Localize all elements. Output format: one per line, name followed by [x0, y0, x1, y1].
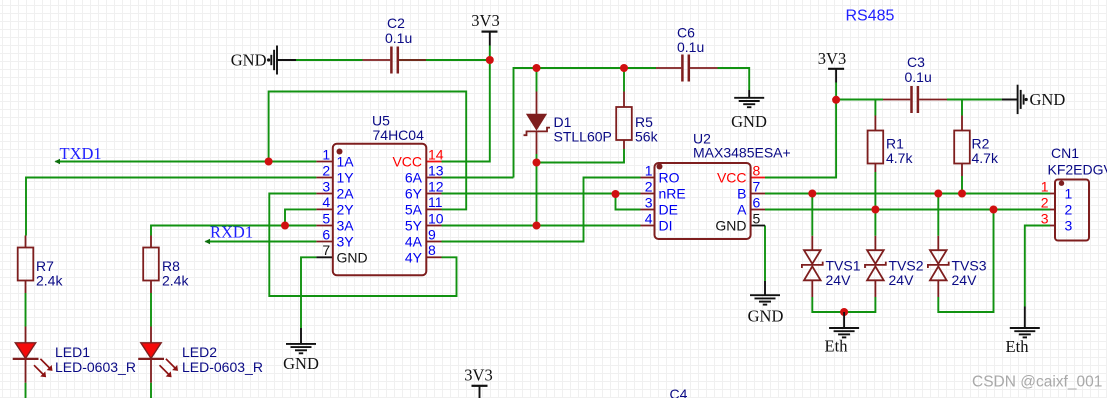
svg-text:RXD1: RXD1	[210, 223, 253, 242]
svg-text:RO: RO	[659, 170, 680, 186]
svg-text:24V: 24V	[826, 272, 852, 288]
svg-text:3V3: 3V3	[471, 11, 499, 30]
svg-text:24V: 24V	[952, 272, 978, 288]
svg-text:GND: GND	[283, 354, 319, 373]
svg-text:Eth: Eth	[1006, 337, 1030, 356]
svg-text:6: 6	[753, 194, 761, 210]
svg-text:9: 9	[428, 226, 436, 242]
svg-text:3: 3	[1041, 210, 1049, 226]
svg-text:3A: 3A	[337, 218, 355, 234]
svg-text:2: 2	[645, 178, 653, 194]
svg-text:LED-0603_R: LED-0603_R	[55, 359, 136, 375]
svg-text:13: 13	[428, 162, 444, 178]
svg-text:GND: GND	[748, 307, 784, 326]
svg-text:3Y: 3Y	[337, 234, 355, 250]
svg-text:5: 5	[753, 210, 761, 226]
svg-text:7: 7	[322, 242, 330, 258]
svg-text:3: 3	[645, 194, 653, 210]
svg-text:0.1u: 0.1u	[385, 30, 412, 46]
svg-text:3V3: 3V3	[464, 366, 492, 385]
svg-text:4Y: 4Y	[405, 249, 423, 265]
svg-text:GND: GND	[231, 51, 267, 70]
svg-text:GND: GND	[731, 112, 767, 131]
svg-text:2.4k: 2.4k	[36, 273, 63, 289]
svg-text:VCC: VCC	[392, 154, 422, 170]
svg-text:RS485: RS485	[846, 8, 895, 25]
svg-text:nRE: nRE	[659, 186, 686, 202]
svg-text:2: 2	[1065, 202, 1073, 218]
svg-text:6A: 6A	[405, 170, 423, 186]
svg-text:2Y: 2Y	[337, 201, 355, 217]
svg-text:DI: DI	[659, 218, 673, 234]
svg-text:DE: DE	[659, 202, 678, 218]
svg-text:10: 10	[428, 210, 444, 226]
svg-text:12: 12	[428, 178, 444, 194]
svg-text:1: 1	[1041, 178, 1049, 194]
svg-text:3: 3	[322, 178, 330, 194]
svg-text:A: A	[737, 202, 747, 218]
svg-text:8: 8	[753, 162, 761, 178]
svg-text:4.7k: 4.7k	[972, 150, 999, 166]
svg-text:3: 3	[1065, 218, 1073, 234]
svg-text:CN1: CN1	[1051, 145, 1079, 161]
svg-text:8: 8	[428, 242, 436, 258]
svg-text:GND: GND	[337, 249, 368, 265]
svg-text:1: 1	[322, 146, 330, 162]
svg-text:TXD1: TXD1	[60, 144, 102, 163]
svg-text:C2: C2	[387, 15, 405, 31]
svg-text:4.7k: 4.7k	[886, 150, 913, 166]
svg-text:2.4k: 2.4k	[162, 273, 189, 289]
svg-text:3V3: 3V3	[818, 49, 846, 68]
svg-text:4: 4	[645, 210, 653, 226]
svg-text:24V: 24V	[889, 272, 915, 288]
svg-text:5: 5	[322, 210, 330, 226]
svg-text:1A: 1A	[337, 154, 355, 170]
svg-text:VCC: VCC	[717, 170, 747, 186]
svg-text:74HC04: 74HC04	[373, 127, 425, 143]
svg-text:C3: C3	[907, 54, 925, 70]
svg-text:6Y: 6Y	[405, 186, 423, 202]
svg-text:KF2EDGV: KF2EDGV	[1048, 162, 1107, 178]
svg-text:1Y: 1Y	[337, 170, 355, 186]
svg-text:LED2: LED2	[182, 344, 217, 360]
svg-text:5A: 5A	[405, 201, 423, 217]
svg-text:B: B	[737, 186, 746, 202]
svg-text:C4: C4	[670, 386, 688, 398]
svg-text:4A: 4A	[405, 234, 423, 250]
svg-text:STLL60P: STLL60P	[554, 129, 612, 145]
svg-text:2: 2	[1041, 194, 1049, 210]
svg-text:5Y: 5Y	[405, 218, 423, 234]
svg-text:CSDN @caixf_001: CSDN @caixf_001	[972, 373, 1102, 390]
svg-text:LED1: LED1	[55, 344, 90, 360]
svg-text:0.1u: 0.1u	[677, 39, 704, 55]
svg-text:7: 7	[753, 178, 761, 194]
svg-text:1: 1	[1065, 186, 1073, 202]
svg-text:LED-0603_R: LED-0603_R	[182, 359, 263, 375]
svg-text:4: 4	[322, 194, 330, 210]
svg-text:2A: 2A	[337, 186, 355, 202]
svg-text:11: 11	[428, 194, 443, 210]
svg-text:1: 1	[645, 162, 653, 178]
svg-text:GND: GND	[1030, 90, 1066, 109]
svg-text:GND: GND	[715, 218, 746, 234]
svg-text:Eth: Eth	[825, 337, 849, 356]
svg-text:14: 14	[428, 146, 444, 162]
svg-text:2: 2	[322, 162, 330, 178]
svg-text:0.1u: 0.1u	[905, 69, 932, 85]
svg-text:56k: 56k	[635, 129, 659, 145]
svg-text:MAX3485ESA+: MAX3485ESA+	[693, 145, 791, 161]
svg-text:6: 6	[322, 226, 330, 242]
